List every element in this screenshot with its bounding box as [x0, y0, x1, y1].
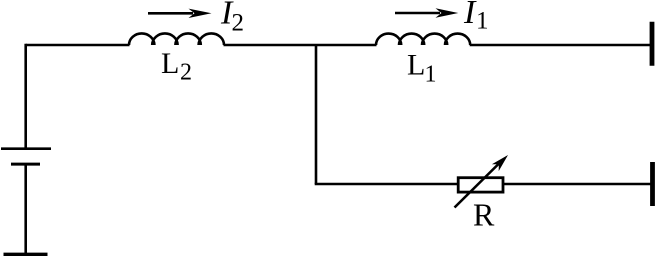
svg-text:L: L [407, 49, 425, 82]
current arrow I2 shaft [148, 12, 193, 15]
inductor L2 [129, 33, 224, 45]
wire top-middle horizontal (L2 to L1 through node) [224, 44, 377, 47]
svg-text:R: R [473, 197, 495, 233]
wire top-left horizontal (battery top to L2) [26, 44, 130, 47]
top-right terminal bar [650, 22, 655, 66]
wire left vertical (top wire to battery) [24, 44, 27, 148]
current arrow I2 head [189, 9, 212, 18]
variable resistor R diagonal arrowhead [492, 155, 508, 171]
wire top-right horizontal (L1 to right terminal) [470, 44, 651, 47]
variable resistor R body [458, 178, 503, 192]
inductor L1 [376, 34, 470, 45]
svg-text:2: 2 [180, 60, 192, 86]
current arrow I1 shaft [395, 12, 440, 15]
current arrow I1 head [436, 8, 459, 17]
wire bottom-left horizontal (node to resistor) [315, 183, 458, 186]
bottom-right terminal bar [650, 162, 655, 206]
svg-text:I: I [463, 0, 477, 31]
svg-text:1: 1 [476, 8, 489, 35]
wire bottom-right horizontal (resistor to bottom terminal) [504, 183, 652, 186]
bottom-left terminal bar [4, 253, 48, 256]
wire battery bottom vertical [24, 165, 27, 254]
svg-text:1: 1 [425, 62, 437, 88]
svg-text:2: 2 [232, 10, 245, 37]
wire node vertical (junction to bottom branch) [315, 44, 318, 184]
svg-text:L: L [161, 47, 179, 80]
battery short plate (negative) [11, 163, 40, 166]
variable resistor R diagonal arrow shaft [455, 164, 500, 208]
battery long plate (positive) [1, 147, 51, 150]
